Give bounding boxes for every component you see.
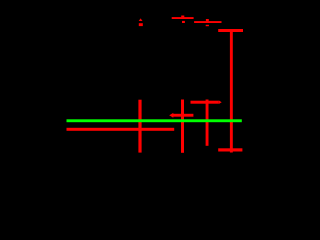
wire [194,21,221,23]
voltage source V2 [206,19,209,26]
node A [67,119,242,122]
voltage source V1 [181,16,185,24]
wire [67,128,175,131]
wire [230,32,233,153]
rail +V [218,29,243,32]
diode D1 [139,18,143,26]
current arrow I2 [191,100,222,104]
wire [138,100,141,153]
ground [218,148,242,151]
wire [172,17,194,19]
wire [206,100,209,146]
wire [181,100,184,153]
current arrow I1 [169,113,193,118]
